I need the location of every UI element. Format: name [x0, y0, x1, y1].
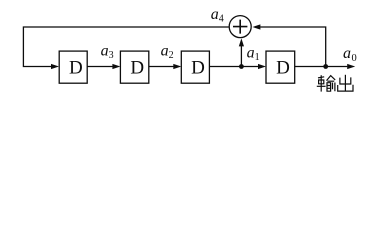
- label a3: [101, 43, 114, 62]
- wire: D2 output to D3 input: [149, 64, 182, 69]
- svg-text:a0: a0: [343, 45, 357, 64]
- label a2: [161, 43, 174, 62]
- flip-flop D1 (leftmost stage): [59, 51, 87, 83]
- wire: D1 output to D2 input: [87, 64, 120, 69]
- glyph 输: [317, 75, 335, 91]
- svg-text:a1: a1: [247, 44, 260, 63]
- label 输出 (output), drawn glyphs: [317, 75, 353, 92]
- label a4: [211, 6, 224, 25]
- node: junction of a1 net and adder tap: [239, 64, 244, 69]
- node: junction of a0 net and feedback: [323, 64, 328, 69]
- flip-flop D3: [181, 51, 209, 83]
- label a0: [343, 45, 357, 64]
- svg-text:D: D: [191, 57, 205, 78]
- wire: feedback from a0 node up and left to adder right input: [252, 24, 325, 66]
- svg-text:a3: a3: [101, 43, 114, 62]
- svg-text:D: D: [276, 57, 290, 78]
- flip-flop D2: [120, 51, 148, 83]
- wire: feedback from adder output along top-left down to shift register input: [23, 27, 229, 69]
- wire: tap from a1 node up to adder bottom input: [239, 38, 244, 66]
- svg-text:a4: a4: [211, 6, 224, 25]
- svg-text:a2: a2: [161, 43, 174, 62]
- svg-text:D: D: [69, 57, 83, 78]
- wire a0: D4 output to circuit output: [295, 64, 356, 69]
- wire: D3 output to D4 input (a1 net): [209, 64, 266, 69]
- glyph 出: [338, 75, 353, 91]
- adder U1: modulo-2 adder circle: [229, 16, 251, 38]
- flip-flop D4 (rightmost stage): [266, 51, 295, 83]
- label a1: [247, 44, 260, 63]
- svg-text:D: D: [130, 57, 144, 78]
